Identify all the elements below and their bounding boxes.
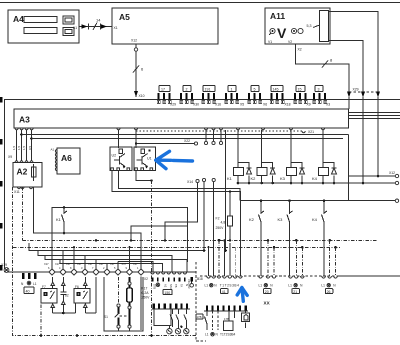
svg-text:250V: 250V — [216, 226, 225, 230]
dashdot drop x41 — [40, 297, 42, 336]
svg-text:X17: X17 — [66, 262, 71, 266]
X17 multipin connectors — [44, 262, 144, 275]
terminal group 21 bumps — [289, 276, 304, 278]
svg-text:17: 17 — [161, 88, 165, 92]
relay coil K4 — [312, 130, 337, 184]
connector group X16 — [202, 86, 221, 107]
svg-text:X17: X17 — [77, 262, 82, 266]
svg-text:X5: X5 — [240, 103, 244, 107]
connector group X29 — [158, 86, 177, 107]
diamond stub 129.5 — [128, 246, 130, 268]
svg-text:K3: K3 — [280, 176, 286, 181]
svg-text:2: 2 — [186, 88, 188, 92]
svg-text:U2: U2 — [112, 154, 117, 158]
svg-text:K3: K3 — [278, 217, 284, 222]
connector group X6 — [248, 86, 267, 107]
wire right drop a continues — [377, 97, 379, 176]
dashdot drop to bump 219 — [218, 240, 220, 276]
svg-text:1,5: 1,5 — [22, 145, 26, 150]
blue arrow pointing at U1 — [156, 151, 193, 168]
switch S2 — [60, 277, 69, 313]
svg-text:6,2A: 6,2A — [142, 291, 150, 295]
dashdot frame left — [13, 187, 197, 337]
svg-text:XX: XX — [264, 301, 271, 306]
wire A3 to U2 — [118, 130, 120, 148]
nest dashdot bus 2 — [13, 246, 340, 249]
svg-text:1,5: 1,5 — [12, 145, 16, 150]
svg-text:X17: X17 — [88, 262, 93, 266]
svg-text:L1: L1 — [288, 283, 292, 287]
svg-text:K1: K1 — [227, 176, 233, 181]
terminal group 20 bumps — [259, 276, 276, 278]
svg-text:V2: V2 — [288, 40, 292, 44]
svg-text:U1: U1 — [147, 157, 152, 161]
wire U2 out a — [119, 171, 241, 201]
svg-text:A6: A6 — [61, 153, 72, 163]
connector group X5 — [225, 86, 244, 107]
svg-text:3: 3 — [318, 88, 320, 92]
F7 F6 lower wiring — [53, 277, 96, 314]
transistor module U1 — [134, 147, 156, 171]
svg-text:X21: X21 — [308, 130, 314, 134]
svg-text:X17: X17 — [55, 262, 60, 266]
svg-text:TB: TB — [174, 284, 178, 288]
svg-text:X18: X18 — [197, 277, 203, 281]
svg-text:14: 14 — [96, 18, 101, 23]
svg-text:X22: X22 — [184, 139, 190, 143]
svg-text:X30: X30 — [193, 103, 199, 107]
heater sub assembly pins — [204, 306, 248, 312]
svg-text:V1: V1 — [268, 40, 272, 44]
measuring unit A11 — [265, 8, 330, 44]
svg-text:5: 5 — [254, 88, 256, 92]
terminal X14 — [187, 179, 199, 184]
drop to bump 208.5 — [207, 246, 209, 276]
svg-text:X6: X6 — [263, 103, 267, 107]
svg-text:X16: X16 — [215, 103, 221, 107]
relay coil K3 — [280, 130, 305, 184]
wire A11 top to right drop — [329, 12, 379, 95]
svg-text:T1T2S3B4: T1T2S3B4 — [220, 333, 235, 337]
terminal group 26 bumps — [322, 276, 338, 278]
svg-text:STA: STA — [169, 284, 173, 289]
terminal group 41 labels — [205, 283, 240, 294]
nc drop b — [212, 178, 215, 276]
terminal group 26 labels — [321, 283, 336, 294]
wire drop x225 — [224, 130, 227, 252]
svg-text:F2: F2 — [216, 217, 220, 221]
svg-text:145: 145 — [273, 88, 279, 92]
nest rail 2 — [29, 243, 204, 269]
connector group X30 — [180, 86, 199, 107]
svg-text:191: 191 — [205, 88, 211, 92]
control unit A3 — [14, 109, 349, 128]
wire A11 X2 with slash 8 — [296, 44, 350, 94]
svg-text:X2: X2 — [298, 48, 302, 52]
svg-text:250V: 250V — [142, 296, 151, 300]
X2 strip terminals — [144, 272, 189, 295]
wires A3 to A2 — [12, 130, 32, 161]
connector group X9 — [294, 86, 311, 107]
motor protector F6 — [74, 277, 90, 313]
relay contact K3 — [278, 199, 293, 276]
wire A4 to A5 with cable slash 14 — [73, 18, 112, 31]
svg-text:15: 15 — [298, 88, 302, 92]
fuse F2 — [216, 216, 233, 240]
mains pins N PE L1 — [21, 273, 37, 294]
wire terminal X12a — [349, 171, 399, 178]
nc terminal circles under A3 — [204, 130, 222, 145]
blue arrow pointing up — [237, 288, 247, 302]
nc drop a — [202, 178, 205, 251]
wire right drop b continues — [362, 97, 364, 183]
svg-text:A3: A3 — [19, 115, 30, 125]
svg-text:K2: K2 — [251, 176, 257, 181]
svg-text:X17: X17 — [133, 262, 138, 266]
svg-text:5,3: 5,3 — [307, 24, 312, 28]
lamp panel — [152, 304, 190, 334]
svg-text:TA: TA — [180, 284, 184, 287]
S1 enclosure — [104, 277, 143, 331]
svg-text:S2: S2 — [65, 294, 69, 298]
svg-text:X17: X17 — [44, 262, 49, 266]
svg-text:21: 21 — [293, 290, 297, 294]
svg-text:K2: K2 — [249, 217, 255, 222]
svg-text:L1: L1 — [259, 283, 263, 287]
relay coil K2 — [251, 130, 276, 184]
svg-text:L1: L1 — [321, 283, 325, 287]
connector group X18 — [271, 86, 291, 107]
svg-text:K1: K1 — [56, 217, 62, 222]
terminal group 20 labels — [259, 283, 274, 294]
group3 drops — [296, 240, 302, 276]
svg-text:41: 41 — [222, 290, 226, 294]
svg-text:X12: X12 — [131, 39, 137, 43]
aux pin VKL — [187, 277, 200, 288]
svg-text:K4: K4 — [312, 176, 318, 181]
svg-text:X19: X19 — [1, 263, 7, 267]
bottom strip dashed line — [200, 275, 400, 277]
wire X22 stub — [135, 139, 198, 145]
svg-text:X17: X17 — [99, 262, 104, 266]
svg-text:A1: A1 — [51, 148, 55, 152]
nest dashdot bus 1 — [23, 239, 379, 242]
svg-text:A2: A2 — [163, 284, 167, 288]
heater sub assembly components — [196, 311, 250, 337]
fuse drop to bump 229.8 — [229, 243, 231, 276]
relay A6 — [51, 148, 81, 175]
svg-text:17B: 17B — [224, 317, 229, 321]
drop to bump 235.2 — [234, 247, 236, 276]
svg-text:K4: K4 — [312, 217, 318, 222]
wire contact feed line — [240, 199, 399, 202]
wire A5 X12 down to X10 with slash 6 — [133, 44, 145, 98]
shunt box on A11 right edge — [307, 11, 329, 42]
svg-text:0,5: 0,5 — [28, 145, 32, 150]
relay coil K1 — [227, 130, 252, 184]
svg-text:X2: X2 — [144, 277, 148, 281]
control unit A5 — [112, 8, 218, 44]
svg-text:T1T2S3B4: T1T2S3B4 — [220, 283, 240, 287]
svg-text:X11: X11 — [14, 190, 20, 194]
svg-text:1,5: 1,5 — [17, 145, 21, 150]
bus wire upper — [20, 133, 348, 201]
nest rail 6 — [118, 262, 153, 273]
top border line — [0, 2, 400, 4]
wire A3 to U1 — [135, 130, 137, 148]
bus wire lower — [30, 137, 343, 140]
wire diamond 141 drop — [140, 277, 142, 331]
relay contact K2 — [249, 199, 264, 276]
fuse label F17 — [142, 287, 151, 300]
page edge mark 5 — [0, 265, 3, 271]
svg-text:X14: X14 — [187, 180, 193, 184]
svg-text:L1: L1 — [205, 333, 209, 337]
motor protector F7 — [41, 277, 57, 313]
A3 bottom terminal bumps — [15, 128, 325, 130]
terminal X19 — [1, 263, 9, 272]
main enclosure frame — [5, 100, 400, 273]
drop to bump 224.4 — [223, 239, 225, 276]
wire U2 out b — [112, 171, 240, 277]
svg-text:X10: X10 — [139, 94, 145, 98]
group2 drops — [268, 240, 274, 276]
svg-text:F17: F17 — [142, 287, 148, 291]
svg-text:A5: A5 — [119, 12, 130, 22]
S1 fuse branch — [104, 277, 132, 331]
nest rail 5 — [60, 259, 162, 272]
relay contact K1 — [56, 206, 67, 234]
svg-text:X12: X12 — [389, 171, 395, 175]
terminal group 21 labels — [288, 283, 303, 294]
svg-text:150: 150 — [164, 291, 170, 295]
svg-text:1: 1 — [231, 88, 233, 92]
connector group X3 — [313, 86, 330, 107]
wire A11 bottom to mid drop — [329, 41, 364, 95]
transistor module U2 — [110, 147, 132, 171]
page edge mark 3 — [0, 181, 3, 187]
svg-text:A2: A2 — [17, 167, 28, 177]
svg-text:X1: X1 — [73, 26, 77, 30]
svg-text:X17: X17 — [110, 262, 115, 266]
wire U1 out to dash-dot drop — [136, 171, 153, 336]
svg-text:40: 40 — [26, 290, 30, 294]
wire U1 staircase — [130, 226, 188, 242]
nest rail 4 — [45, 255, 187, 272]
svg-text:V: V — [277, 25, 287, 41]
wire coil common to terminal X12b — [238, 181, 399, 184]
page edge mark 4 — [0, 223, 3, 229]
svg-text:17B: 17B — [197, 315, 202, 319]
svg-text:20: 20 — [265, 290, 269, 294]
svg-text:X29: X29 — [353, 88, 359, 92]
inner box C top — [52, 208, 188, 273]
svg-text:X18: X18 — [285, 103, 291, 107]
pin bracket squares — [157, 101, 327, 104]
svg-text:X1: X1 — [114, 26, 118, 30]
group4 drops — [330, 240, 336, 276]
wire X14 staircase — [164, 183, 198, 242]
wire A2 drop solid to rail — [34, 187, 142, 269]
page edge mark 1 — [0, 97, 3, 103]
nest rail 3 — [38, 250, 172, 272]
svg-text:L1: L1 — [33, 282, 37, 286]
wire A2 drop dashdot b — [22, 187, 24, 240]
svg-text:A11: A11 — [270, 11, 285, 21]
svg-text:X9: X9 — [8, 155, 12, 159]
control unit A4 — [8, 10, 79, 43]
control unit A2 — [8, 155, 42, 194]
A3 right exit wires — [349, 113, 400, 119]
svg-text:26: 26 — [327, 290, 331, 294]
diamond stub 74 — [73, 246, 75, 268]
svg-text:X17: X17 — [122, 262, 127, 266]
relay contact K4 — [312, 199, 327, 276]
dashed link X29 between drops — [347, 88, 380, 98]
page edge mark 2 — [0, 139, 3, 145]
dashed bus X21 — [136, 130, 314, 134]
svg-text:L1: L1 — [205, 283, 209, 287]
svg-text:A4: A4 — [13, 14, 24, 24]
svg-text:4,8: 4,8 — [221, 221, 226, 225]
wire X2 drop continues to A3 — [348, 97, 350, 109]
svg-text:S1: S1 — [104, 315, 108, 319]
dashed frame right — [196, 262, 206, 341]
terminal group 41 bumps — [207, 276, 243, 278]
